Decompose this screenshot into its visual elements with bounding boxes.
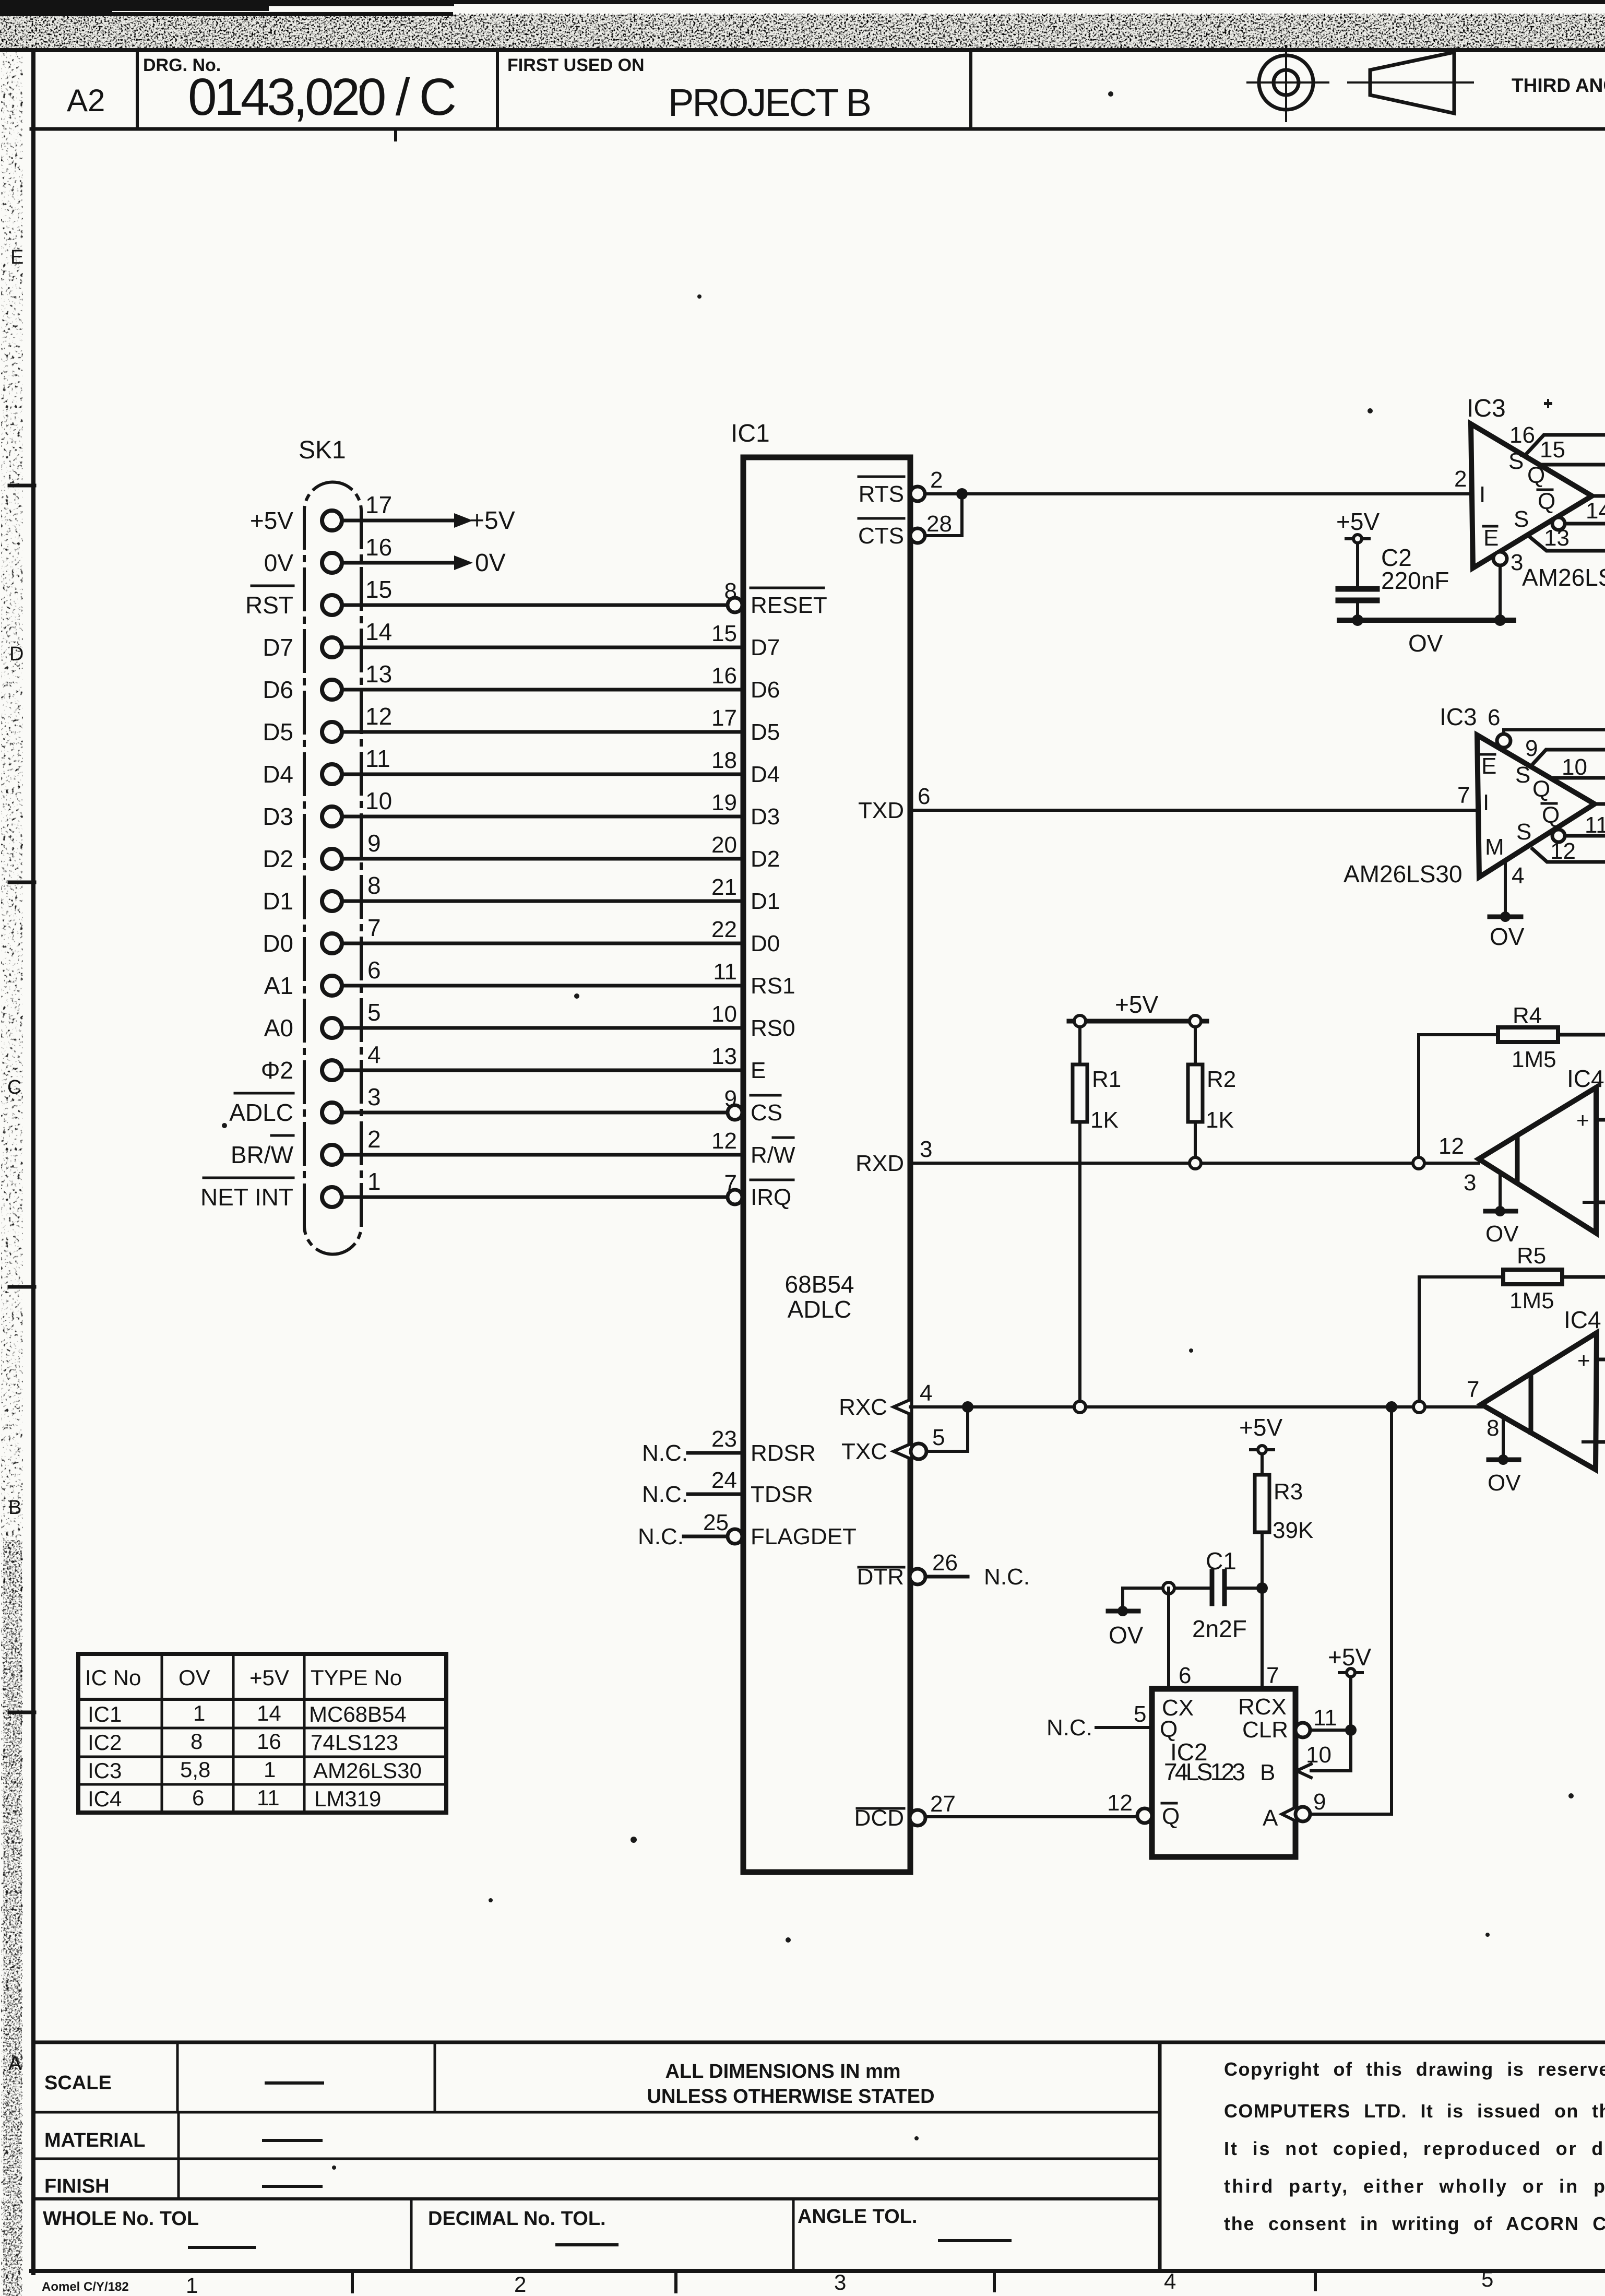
svg-text:Q: Q: [1542, 802, 1560, 828]
svg-text:PROJECT B: PROJECT B: [668, 81, 872, 124]
svg-text:COMPUTERS LTD. It is issued on: COMPUTERS LTD. It is issued on the: [1224, 2100, 1605, 2122]
border top scan bar segments: [0, 0, 1605, 16]
IC1 pin 9 CS: [728, 1105, 742, 1120]
svg-text:Q: Q: [1162, 1804, 1180, 1829]
svg-text:7: 7: [1266, 1663, 1279, 1688]
svg-text:11: 11: [365, 745, 390, 772]
svg-text:FLAGDET: FLAGDET: [751, 1524, 857, 1549]
svg-text:8: 8: [1487, 1415, 1499, 1441]
svg-text:+5V: +5V: [1115, 991, 1158, 1018]
IC3a pin 3 bubble: [1493, 552, 1507, 565]
monostable IC2 74LS123 body: [1152, 1689, 1295, 1857]
svg-text:13: 13: [1544, 525, 1570, 551]
IC3b pin 12 stub: [1532, 849, 1605, 862]
wire RST to RESET: [342, 603, 728, 607]
svg-text:26: 26: [932, 1550, 958, 1576]
svg-text:9: 9: [1525, 736, 1538, 761]
resistor R1 1K: [1078, 1027, 1081, 1064]
svg-text:S: S: [1515, 762, 1530, 788]
SK1 pin 12: [322, 722, 342, 742]
svg-text:13: 13: [711, 1044, 737, 1069]
svg-text:SK1: SK1: [299, 436, 346, 464]
svg-text:DECIMAL No. TOL.: DECIMAL No. TOL.: [428, 2208, 606, 2230]
svg-text:10: 10: [711, 1001, 737, 1027]
svg-text:D0: D0: [751, 931, 780, 956]
svg-text:12: 12: [365, 703, 392, 730]
svg-text:IC4: IC4: [1564, 1306, 1601, 1333]
SK1 pin 10: [322, 807, 342, 826]
svg-text:1M5: 1M5: [1509, 1288, 1554, 1313]
svg-text:10: 10: [365, 787, 392, 814]
svg-text:15: 15: [711, 621, 737, 646]
svg-text:6: 6: [1488, 705, 1500, 730]
svg-text:LM319: LM319: [314, 1786, 381, 1811]
svg-text:D: D: [9, 643, 23, 665]
svg-text:R/W: R/W: [751, 1142, 795, 1168]
svg-text:24: 24: [711, 1467, 737, 1493]
svg-text:AM26LS30: AM26LS30: [1522, 564, 1605, 591]
svg-text:FIRST USED ON: FIRST USED ON: [507, 55, 645, 75]
zone tick top: [394, 129, 397, 140]
svg-text:220nF: 220nF: [1381, 567, 1449, 594]
IC1 68B54 ADLC body: [743, 457, 910, 1872]
SK1 pin 16: [322, 553, 342, 573]
svg-text:68B54: 68B54: [784, 1271, 854, 1298]
sheet column tick 2/3: [674, 2271, 677, 2292]
wire +5V arrow: [342, 519, 456, 523]
svg-text:THIRD ANGLE PROJECTION: THIRD ANGLE PROJECTION: [1512, 75, 1605, 96]
svg-text:5,8: 5,8: [180, 1757, 210, 1782]
wire A to RXC net: [1310, 1413, 1392, 1814]
svg-text:MATERIAL: MATERIAL: [44, 2129, 146, 2151]
junction R1/RXC: [1074, 1401, 1086, 1413]
title row bottom line: [31, 127, 1605, 131]
border top scan bar: [0, 15, 1605, 48]
zone tick E/D: [9, 484, 34, 488]
wire D3: [342, 815, 743, 819]
svg-text:D4: D4: [263, 761, 293, 788]
junction CLR/B: [1345, 1724, 1357, 1736]
IC4b minus marker: [1583, 1440, 1595, 1443]
SK1 pin 7: [322, 933, 342, 953]
wire RTS to IC3 input: [925, 492, 1471, 495]
wire R5 feedback to RXC: [1419, 1277, 1503, 1401]
SK1 pin 4: [322, 1060, 342, 1080]
svg-text:D6: D6: [751, 677, 780, 703]
wire R1 to RXC line: [1078, 1122, 1081, 1401]
IC3b pin 11 stub with bubble: [1552, 830, 1565, 842]
svg-text:OV: OV: [1109, 1622, 1144, 1649]
IC3a pin 16 stub: [1525, 435, 1605, 456]
svg-text:9: 9: [1313, 1789, 1326, 1815]
svg-text:23: 23: [711, 1426, 737, 1452]
junction IC2A/RXC: [1386, 1401, 1397, 1413]
title row divider A2/DRG: [136, 50, 139, 129]
ground symbol IC3b: [1490, 915, 1521, 919]
svg-text:14: 14: [365, 618, 392, 645]
svg-text:IC2: IC2: [88, 1730, 122, 1755]
svg-text:13: 13: [365, 660, 392, 688]
IC3a pin 14 stub with bubble: [1552, 517, 1565, 530]
wire C1 right to R3: [1227, 1587, 1262, 1590]
svg-text:+: +: [1577, 1348, 1590, 1372]
border left frame line: [31, 48, 35, 2275]
svg-text:A1: A1: [264, 972, 293, 999]
svg-text:2: 2: [514, 2272, 526, 2296]
svg-text:D2: D2: [263, 845, 293, 872]
svg-text:1: 1: [367, 1168, 381, 1195]
wire D5: [342, 730, 743, 734]
wire +5V to C2: [1356, 543, 1359, 585]
svg-text:1K: 1K: [1206, 1107, 1234, 1133]
svg-text:16: 16: [711, 663, 737, 689]
SK1 pin 5: [322, 1018, 342, 1038]
svg-text:+5V: +5V: [250, 507, 293, 534]
svg-text:15: 15: [1540, 437, 1565, 463]
svg-text:7: 7: [724, 1170, 737, 1196]
svg-text:6: 6: [367, 956, 381, 984]
svg-text:Q: Q: [1527, 463, 1545, 488]
svg-text:TYPE No: TYPE No: [311, 1665, 402, 1690]
svg-text:1: 1: [264, 1757, 276, 1782]
svg-text:3: 3: [834, 2270, 846, 2294]
wire R2 to RXD line: [1194, 1122, 1197, 1158]
wire R3 to C1/RCX junction: [1261, 1532, 1264, 1588]
svg-text:4: 4: [920, 1380, 932, 1406]
svg-text:74LS123: 74LS123: [311, 1730, 398, 1755]
svg-text:IC4: IC4: [88, 1786, 122, 1811]
svg-text:11: 11: [1585, 812, 1605, 838]
ground symbol at C1: [1108, 1609, 1138, 1614]
svg-text:S: S: [1514, 506, 1529, 532]
svg-text:TDSR: TDSR: [751, 1482, 813, 1507]
svg-text:25: 25: [703, 1510, 729, 1535]
wire BR/W to R/W: [342, 1153, 743, 1157]
svg-text:7: 7: [1457, 783, 1470, 808]
svg-text:IC1: IC1: [88, 1702, 122, 1726]
svg-text:E: E: [1481, 753, 1496, 779]
svg-text:CLR: CLR: [1242, 1717, 1288, 1743]
svg-text:3: 3: [367, 1083, 381, 1110]
svg-text:8: 8: [191, 1729, 203, 1754]
SK1 pin 8: [322, 891, 342, 911]
svg-text:FINISH: FINISH: [44, 2175, 110, 2197]
svg-text:2: 2: [1454, 466, 1467, 492]
title block verticals: [176, 2042, 179, 2112]
svg-text:IC No: IC No: [85, 1665, 141, 1690]
title row divider PROJECT/symbol: [969, 50, 972, 129]
wire RCX pin7 vertical: [1261, 1588, 1264, 1689]
wire CTS loop: [925, 494, 962, 536]
svg-text:D4: D4: [751, 762, 780, 787]
IC power table frame: [78, 1654, 446, 1813]
svg-text:D1: D1: [751, 889, 780, 914]
svg-text:D0: D0: [263, 930, 293, 957]
SK1 pin 13: [322, 680, 342, 700]
svg-text:N.C.: N.C.: [638, 1524, 684, 1549]
wire D7: [342, 646, 743, 649]
svg-text:It is not copied, reproduced o: It is not copied, reproduced or dis: [1224, 2138, 1605, 2159]
0V rail under IC3a: [1339, 618, 1514, 623]
SK1 pin 11: [322, 764, 342, 784]
svg-text:OV: OV: [1490, 923, 1525, 950]
IC3a apex output stub: [1592, 494, 1605, 498]
svg-text:16: 16: [257, 1729, 281, 1754]
connector SK1 outline: [304, 482, 361, 1254]
wire IC3a pin3 to 0V rail: [1499, 565, 1502, 620]
wire D1: [342, 900, 743, 903]
resistor R3 39K: [1261, 1454, 1264, 1475]
svg-text:ADLC: ADLC: [229, 1099, 293, 1126]
svg-text:2n2F: 2n2F: [1192, 1615, 1247, 1642]
svg-text:A: A: [8, 2053, 22, 2075]
IC3b apex output stub: [1595, 802, 1605, 806]
svg-text:TXD: TXD: [858, 798, 904, 823]
border top inner line: [0, 48, 1605, 52]
svg-text:OV: OV: [1408, 630, 1443, 657]
svg-text:39K: 39K: [1273, 1518, 1313, 1543]
svg-text:+5V: +5V: [1239, 1414, 1282, 1441]
IC3b pin 9 stub: [1533, 750, 1605, 763]
svg-text:UNLESS OTHERWISE STATED: UNLESS OTHERWISE STATED: [647, 2086, 934, 2108]
svg-text:16: 16: [365, 534, 392, 561]
svg-text:D3: D3: [751, 804, 780, 830]
svg-text:10: 10: [1306, 1742, 1331, 1768]
junction RXC/TXC: [962, 1401, 973, 1413]
wire NET INT to IRQ: [342, 1196, 728, 1199]
svg-text:1: 1: [186, 2273, 198, 2296]
svg-text:15: 15: [365, 576, 392, 603]
svg-text:18: 18: [711, 748, 737, 773]
svg-text:third party, either wholly or: third party, either wholly or in p: [1224, 2175, 1605, 2197]
svg-text:N.C.: N.C.: [642, 1482, 688, 1507]
svg-text:D7: D7: [751, 635, 780, 660]
IC4a pin stubs right: [1596, 1118, 1605, 1122]
svg-text:22: 22: [711, 917, 737, 942]
svg-text:4: 4: [1512, 863, 1524, 889]
svg-text:+5V: +5V: [1328, 1643, 1371, 1671]
svg-text:AM26LS30: AM26LS30: [1344, 860, 1463, 887]
junction RTS/CTS: [956, 488, 968, 500]
svg-text:D5: D5: [751, 719, 780, 745]
IC1 pin 28 CTS: [910, 528, 925, 543]
SK1 pin 6: [322, 976, 342, 996]
svg-text:D1: D1: [263, 887, 293, 915]
svg-text:6: 6: [918, 784, 930, 809]
junction R5 feedback/RXC: [1413, 1401, 1425, 1413]
IC3a pin 15 stub: [1540, 463, 1605, 467]
IC1 pin 7 IRQ: [728, 1190, 742, 1204]
svg-text:4: 4: [367, 1041, 381, 1068]
svg-text:3: 3: [1464, 1170, 1476, 1196]
svg-text:B: B: [8, 1497, 21, 1519]
IC1 pin 2 RTS: [910, 487, 925, 501]
SK1 pin 2: [322, 1145, 342, 1165]
svg-text:9: 9: [367, 830, 381, 857]
svg-text:+: +: [1576, 1108, 1589, 1132]
wire D4: [342, 773, 743, 776]
wire A1 to RS1: [342, 984, 743, 988]
svg-text:I: I: [1483, 790, 1489, 815]
svg-text:12: 12: [711, 1128, 737, 1154]
capacitor C2: [1338, 586, 1377, 592]
svg-text:RXC: RXC: [839, 1394, 887, 1420]
wire ADLC to CS: [342, 1111, 728, 1115]
svg-text:16: 16: [1509, 422, 1535, 448]
svg-text:E: E: [751, 1058, 766, 1083]
svg-text:IC3: IC3: [1440, 703, 1477, 730]
svg-text:8: 8: [367, 872, 381, 899]
svg-text:7: 7: [1467, 1377, 1479, 1402]
svg-text:OV: OV: [1488, 1470, 1521, 1496]
svg-text:D5: D5: [263, 718, 293, 745]
SK1 pin 1: [322, 1187, 342, 1207]
resistor R5 1M5: [1503, 1270, 1562, 1284]
svg-text:D2: D2: [751, 846, 780, 872]
wire phi2 to E: [342, 1069, 743, 1072]
sheet column tick 4/5: [1314, 2271, 1317, 2290]
svg-text:3: 3: [1511, 550, 1523, 575]
svg-text:A: A: [1263, 1805, 1278, 1831]
svg-text:0143,020 / C: 0143,020 / C: [188, 68, 457, 126]
comparator IC4a body: [1479, 1087, 1596, 1233]
wire 0V arrow: [342, 561, 456, 565]
SK1 pin 9: [322, 849, 342, 869]
svg-text:N.C.: N.C.: [984, 1564, 1030, 1590]
wire D0: [342, 942, 743, 945]
svg-text:5: 5: [1481, 2267, 1493, 2291]
svg-text:E: E: [10, 246, 23, 268]
resistor R4 1M5: [1498, 1027, 1558, 1042]
junction R2 rail: [1190, 1015, 1201, 1027]
svg-text:N.C.: N.C.: [642, 1440, 688, 1466]
driver IC3b body: [1477, 735, 1595, 877]
svg-text:TXC: TXC: [841, 1439, 887, 1464]
svg-text:S: S: [1516, 819, 1531, 845]
svg-text:RESET: RESET: [751, 593, 827, 618]
svg-text:11: 11: [713, 959, 737, 985]
svg-text:D7: D7: [263, 634, 293, 661]
svg-text:8: 8: [724, 578, 737, 604]
svg-text:RST: RST: [245, 591, 293, 619]
svg-text:74LS123: 74LS123: [1164, 1758, 1245, 1785]
svg-text:14: 14: [257, 1701, 281, 1725]
svg-text:7: 7: [367, 914, 381, 941]
wire R5 right: [1562, 1275, 1605, 1279]
svg-text:6: 6: [192, 1785, 204, 1810]
svg-text:+5V: +5V: [1336, 508, 1380, 535]
svg-text:R2: R2: [1207, 1067, 1236, 1092]
svg-text:B: B: [1260, 1760, 1275, 1785]
svg-text:ANGLE TOL.: ANGLE TOL.: [798, 2206, 917, 2228]
svg-text:C: C: [7, 1076, 21, 1098]
SK1 pin 14: [322, 637, 342, 657]
sheet column tick 1/2: [351, 2271, 354, 2292]
svg-text:BR/W: BR/W: [231, 1141, 294, 1168]
wire CX pin6 vertical: [1167, 1588, 1170, 1689]
svg-text:17: 17: [365, 491, 392, 518]
IC1 pin 8 RESET: [728, 598, 742, 612]
IC3b pin 10 stub: [1550, 776, 1605, 780]
wire R4 feedback to RXD: [1419, 1035, 1498, 1157]
IC4a minus marker: [1584, 1201, 1596, 1204]
svg-text:RS0: RS0: [751, 1015, 795, 1041]
third angle projection symbol circle: [1247, 46, 1328, 121]
zone tick C/B: [9, 1285, 34, 1289]
svg-text:2: 2: [367, 1126, 381, 1153]
svg-text:Q: Q: [1538, 489, 1555, 514]
svg-text:WHOLE No. TOL: WHOLE No. TOL: [43, 2208, 199, 2230]
svg-text:R5: R5: [1517, 1243, 1546, 1269]
title block row lines: [33, 2111, 1160, 2114]
wire Qbar to DCD: [926, 1815, 1137, 1818]
border left speckle band: [1, 52, 23, 2296]
svg-text:6: 6: [1179, 1663, 1191, 1688]
resistor R2 1K: [1194, 1027, 1197, 1064]
scan speckle dots: [360, 85, 364, 89]
svg-text:CS: CS: [751, 1100, 782, 1126]
svg-text:A2: A2: [67, 83, 105, 118]
svg-text:OV: OV: [179, 1665, 210, 1690]
bottom frame line: [31, 2269, 1605, 2273]
svg-text:28: 28: [926, 511, 952, 537]
svg-text:12: 12: [1438, 1133, 1464, 1159]
svg-text:12: 12: [1107, 1790, 1133, 1816]
junction C1/CX pin6: [1163, 1582, 1174, 1594]
svg-text:+5V: +5V: [249, 1665, 289, 1690]
wire D2: [342, 857, 743, 861]
svg-text:5: 5: [367, 999, 381, 1026]
svg-text:ADLC: ADLC: [788, 1296, 852, 1323]
wire TXC loop: [927, 1407, 968, 1451]
svg-text:5: 5: [932, 1425, 945, 1450]
zone tick B/A: [9, 1711, 34, 1714]
copyright box left edge: [1158, 2042, 1162, 2271]
SK1 pin 15: [322, 595, 342, 615]
svg-text:E: E: [1483, 525, 1499, 551]
svg-text:12: 12: [1550, 838, 1576, 864]
svg-text:1: 1: [193, 1701, 205, 1725]
svg-text:MC68B54: MC68B54: [309, 1702, 407, 1726]
wire A0 to RS0: [342, 1026, 743, 1030]
sheet column tick 3/4: [993, 2271, 996, 2291]
svg-text:M: M: [1485, 834, 1504, 860]
svg-text:Copyright of this drawing is r: Copyright of this drawing is reserved: [1224, 2058, 1605, 2080]
junction R1 rail: [1074, 1015, 1086, 1027]
wire R4 right: [1558, 1033, 1605, 1037]
svg-text:R1: R1: [1092, 1067, 1121, 1092]
IC3b pin 4 wire to ground: [1504, 862, 1507, 916]
title row divider DRG/FIRST: [496, 50, 499, 129]
svg-text:R4: R4: [1513, 1003, 1542, 1028]
svg-text:1K: 1K: [1090, 1107, 1119, 1133]
SK1 pin 3: [322, 1103, 342, 1122]
svg-text:1M5: 1M5: [1512, 1047, 1556, 1072]
svg-text:I: I: [1479, 482, 1485, 507]
svg-text:S: S: [1508, 448, 1524, 474]
svg-text:0V: 0V: [264, 549, 294, 576]
svg-text:R3: R3: [1274, 1479, 1303, 1505]
svg-text:+5V: +5V: [470, 507, 515, 535]
svg-text:IC1: IC1: [731, 420, 770, 447]
junction R2/RXD: [1190, 1157, 1201, 1169]
wire C2 to 0V rail: [1356, 603, 1359, 620]
svg-text:9: 9: [724, 1086, 737, 1111]
wire C1 left to ground: [1123, 1587, 1210, 1590]
wire RXC to IC4b: [910, 1405, 1481, 1409]
svg-text:2: 2: [930, 467, 943, 493]
svg-text:A0: A0: [264, 1014, 293, 1042]
